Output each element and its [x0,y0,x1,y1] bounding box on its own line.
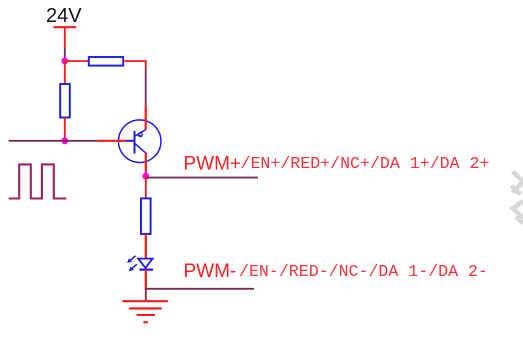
wire stub under PWM- [146,288,254,290]
wire D1 to node D [145,270,147,290]
pin 24V vertical [64,27,66,48]
pin Q1 collector (bottom) [145,153,147,176]
wire R1 to corner [123,61,146,67]
transistor Q1 [118,120,161,163]
net label small EN-/RED-/NC-/DA [239,262,488,281]
power symbol 24V bar [54,26,77,28]
svg-text:/EN+/RED+/NC+/DA 1+/DA 2+: /EN+/RED+/NC+/DA 1+/DA 2+ [241,154,490,173]
LED D1 emission arrows [127,256,137,271]
wire node C to R3 [145,176,147,198]
wire node A down to R2 [64,61,66,84]
watermark chevron upper [512,172,523,195]
svg-text:PWM-: PWM- [184,261,237,282]
label 24V [46,5,82,27]
resistor R3 [141,198,151,234]
pin R2 bottom to node B [64,118,66,141]
resistor R1 [89,57,123,66]
pin Q1 base [98,140,126,142]
wire node D to ground [145,289,147,301]
svg-text:PWM+: PWM+ [184,154,242,175]
node C junction dot [142,173,149,180]
wire R3 to LED D1 [145,234,147,259]
svg-text:/EN-/RED-/NC-/DA 1-/DA 2-: /EN-/RED-/NC-/DA 1-/DA 2- [239,262,488,281]
wire stub under PWM+ [146,177,258,179]
net label small EN+/RED+/NC+/DA [241,154,490,173]
wire input to node B to base [9,140,98,142]
wire 24V to node A [64,48,66,61]
svg-text:24V: 24V [46,5,82,27]
node A junction dot [61,57,68,64]
LED D1 [138,259,153,270]
wire node A to R1 [65,60,89,62]
net label PWM- [184,261,237,282]
pin Q1 emitter (top) [145,106,147,130]
square wave PWM input symbol [9,164,67,198]
node B junction dot [61,137,68,144]
ground symbol [122,301,168,322]
net label PWM+ [184,154,242,175]
resistor R2 [60,84,70,118]
watermark chevron lower [513,201,523,224]
wire corner down to Q1 emitter [145,67,147,106]
